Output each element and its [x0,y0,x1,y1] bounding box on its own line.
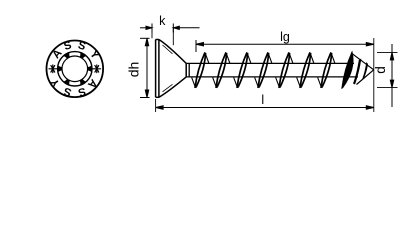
lg arrow left [196,43,204,46]
l dim line [156,107,374,109]
d dim line [391,44,393,107]
dimension k [140,24,200,46]
k dim line left lead [140,27,152,29]
cone bottom edge [357,70,374,85]
dh arrow bottom [145,90,148,98]
dimension d [377,44,398,107]
star right [93,65,101,73]
thread flight 5 [276,52,293,88]
lg dim line [196,43,374,45]
small streak near tip [362,62,368,80]
dh tick bottom [140,97,150,99]
d arrow top [390,52,393,60]
head top corner edge [156,39,159,41]
head face outer line [155,40,157,98]
dimension dh [140,38,150,97]
last flight before tip (filled dark, 4CUT) [342,52,353,88]
l arrow left [156,106,164,109]
torx drive recess ring [56,48,93,89]
svg-text:lg: lg [280,30,290,44]
head bottom flank [159,77,186,97]
svg-text:dh: dh [126,62,142,78]
thread flight 2 [213,52,230,88]
thread flight 1 [192,52,209,88]
svg-text:k: k [159,14,166,28]
dh dim line [146,38,148,97]
l arrow right [366,106,374,109]
thread flight 3 [234,52,251,88]
k tick left [151,24,153,33]
head-shank junction [185,63,187,77]
star left [49,65,101,73]
head outer circle [47,41,104,98]
thread flight 4 [255,52,272,88]
head bottom corner edge [156,96,159,98]
k arrow left [146,26,152,29]
tip extension line [373,38,375,112]
drive outer circle [58,52,92,86]
k extension line right [172,28,174,45]
cone top edge [351,53,374,70]
4CUT notch streak [353,59,361,85]
core top line [186,62,354,64]
l extension line left [155,99,157,112]
thread flight 6 [297,52,314,88]
k tick right [172,24,174,33]
head face inner line [158,40,160,98]
tip [351,53,374,85]
k extension line left [151,28,153,39]
drive inner circle [62,56,88,82]
thread flight 7 [318,52,335,88]
head stamp letters ASSY * ASSY [48,39,102,98]
thread runout vertical [188,63,190,77]
lg arrow right [366,43,374,46]
shank core lines [186,63,358,77]
core bottom line [186,76,358,78]
svg-text:l: l [261,93,264,107]
svg-text:d: d [373,66,388,74]
screw head front view [47,41,104,98]
d arrow bottom [390,80,393,88]
dimension lg [196,40,374,52]
k dim line right lead [173,27,199,29]
d tick top [377,51,398,53]
d tick bottom [377,87,398,89]
k arrow right [173,26,179,29]
head shading lines [163,45,173,92]
head top flank [159,40,186,64]
dh tick top [140,37,150,39]
dimension l [156,99,374,112]
side view: countersunk head [156,40,187,98]
dh arrow top [145,38,148,46]
lg tick left [195,40,197,52]
thread flights (blades) [192,52,335,88]
